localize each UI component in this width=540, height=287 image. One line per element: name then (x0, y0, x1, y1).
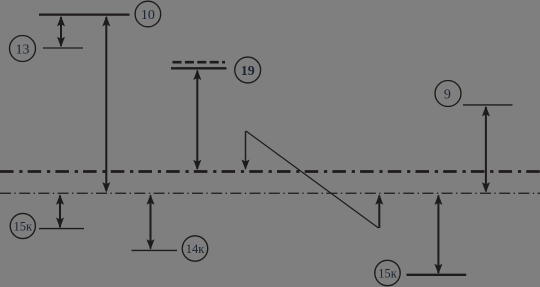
svg-text:14к: 14к (186, 242, 206, 256)
level line 15k left (39, 228, 84, 230)
dimension arrow 19 (double, to thick centerline) (193, 70, 201, 171)
svg-text:15к: 15к (378, 266, 398, 280)
dashed top line 19 (173, 61, 226, 64)
label circle 10 (135, 1, 161, 27)
level line 10 (39, 14, 130, 16)
long dimension arrow 10 (double, to thin centerline) (102, 16, 110, 193)
dimension arrow 9 (double, to thin centerline) (482, 106, 490, 193)
up arrow at diagonal end (375, 194, 383, 228)
down arrow at diagonal start (242, 131, 250, 170)
label circle 15k left (10, 213, 35, 238)
dimension arrow 15k right (double) (434, 194, 442, 274)
svg-text:9: 9 (444, 87, 451, 102)
label circle 9 (435, 81, 461, 107)
level line 19 (171, 67, 227, 69)
level line 9 (463, 104, 513, 106)
diagonal line (246, 131, 379, 228)
thin dash-dot centerline (0, 192, 540, 194)
level line 14k (132, 249, 178, 251)
svg-text:19: 19 (241, 64, 255, 79)
svg-text:10: 10 (141, 8, 155, 23)
label circle 15k right (375, 260, 400, 285)
thick dash-dot centerline (0, 170, 540, 173)
dimension arrow 13 (double) (57, 16, 65, 47)
dimension arrow 15k left (double) (56, 194, 64, 228)
level line 13 (43, 47, 83, 49)
label circle 14k (182, 236, 207, 261)
level line 15k right (407, 274, 467, 276)
svg-text:15к: 15к (14, 219, 34, 233)
svg-text:13: 13 (16, 42, 30, 57)
label circle 13 (10, 36, 36, 62)
label circle 19 (235, 57, 261, 83)
dimension arrow 14k (double) (147, 194, 155, 250)
